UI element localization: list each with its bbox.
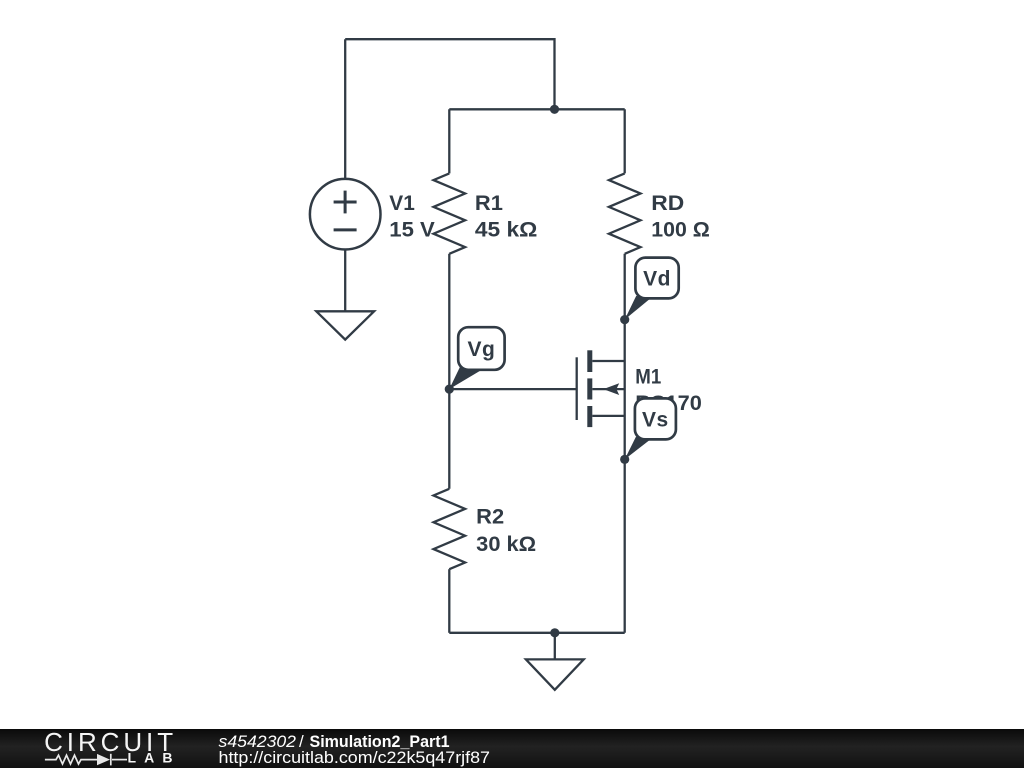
transistor M1 source link [592, 415, 624, 417]
node dot Vg [445, 385, 454, 394]
svg-text:15 V: 15 V [389, 219, 435, 242]
wire R1 to R2 (node Vg rail) [448, 254, 450, 489]
logo squiggle resistor-diode [45, 754, 127, 766]
wire R2 bottom lead [448, 569, 450, 633]
svg-text:30 kΩ: 30 kΩ [476, 533, 536, 556]
svg-text:Vd: Vd [643, 268, 671, 291]
svg-text:Vg: Vg [467, 338, 495, 361]
node flag Vg [449, 327, 504, 389]
svg-text:R1: R1 [475, 192, 503, 215]
V1 plus sign [334, 201, 357, 204]
node dot Vs [620, 455, 629, 464]
resistor R1 [434, 173, 466, 253]
wire mid rail [449, 108, 624, 110]
svg-text:M1: M1 [635, 366, 661, 389]
svg-text:100 Ω: 100 Ω [651, 219, 710, 242]
transistor M1 body link [592, 388, 624, 390]
wire top rail V1 to node [345, 39, 554, 109]
transistor M1 gate bar [576, 357, 578, 420]
wire gate lead [449, 388, 576, 390]
wire bottom rail [449, 632, 624, 634]
node dot Vd [620, 315, 629, 324]
voltage source V1 [310, 179, 381, 250]
transistor M1 channel segments [587, 350, 592, 372]
svg-text:R2: R2 [476, 506, 504, 529]
wire V1 bottom lead [344, 250, 346, 312]
transistor M1 body arrow [603, 383, 619, 395]
wire V1 top lead [344, 39, 346, 179]
wire R1 top lead [448, 109, 450, 173]
svg-text:http://circuitlab.com/c22k5q47: http://circuitlab.com/c22k5q47rjf87 [219, 748, 491, 767]
svg-text:V1: V1 [389, 192, 415, 215]
wire right rail drain-source [624, 254, 626, 633]
svg-text:45 kΩ: 45 kΩ [475, 219, 537, 242]
wire RD top lead [624, 109, 626, 173]
transistor M1 drain link [592, 360, 624, 362]
logo diode [97, 754, 110, 765]
resistor R2 [434, 489, 466, 569]
resistor RD [609, 173, 641, 253]
svg-text:RD: RD [651, 192, 684, 215]
ground under V1 [316, 311, 374, 339]
node flag Vd [625, 258, 679, 320]
wire ground stem [554, 633, 556, 660]
svg-text:LAB: LAB [128, 750, 173, 766]
transistor M1 channel bars [445, 105, 630, 638]
svg-text:Vs: Vs [642, 409, 669, 432]
junction dot bottom [550, 628, 559, 637]
junction dot top [550, 105, 559, 114]
node flag Vs [625, 398, 676, 459]
V1 minus sign [334, 228, 357, 231]
ground bottom [526, 659, 584, 689]
